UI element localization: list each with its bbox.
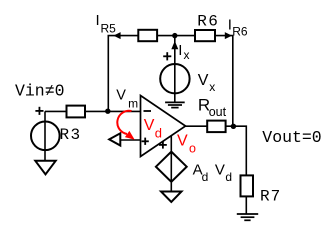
svg-text:Vout=0: Vout=0 xyxy=(262,128,321,147)
svg-text:Vin≠0: Vin≠0 xyxy=(15,82,65,101)
svg-text:R3: R3 xyxy=(60,126,82,144)
svg-text:R6: R6 xyxy=(197,13,219,31)
svg-text:R5: R5 xyxy=(101,22,117,36)
svg-text:d: d xyxy=(225,170,232,184)
svg-text:V: V xyxy=(215,162,225,179)
svg-text:out: out xyxy=(209,105,227,119)
svg-text:o: o xyxy=(189,141,196,155)
svg-text:m: m xyxy=(128,97,138,111)
svg-text:R6: R6 xyxy=(232,24,248,38)
svg-text:x: x xyxy=(209,80,215,94)
svg-text:V: V xyxy=(144,117,155,134)
svg-text:V: V xyxy=(198,72,209,89)
svg-text:V: V xyxy=(177,133,188,150)
svg-text:x: x xyxy=(184,48,190,62)
svg-text:d: d xyxy=(202,170,209,184)
svg-text:V: V xyxy=(116,88,126,104)
svg-text:I: I xyxy=(178,42,182,59)
svg-text:R7: R7 xyxy=(260,188,281,206)
svg-text:d: d xyxy=(155,126,162,141)
svg-text:I: I xyxy=(96,12,100,29)
